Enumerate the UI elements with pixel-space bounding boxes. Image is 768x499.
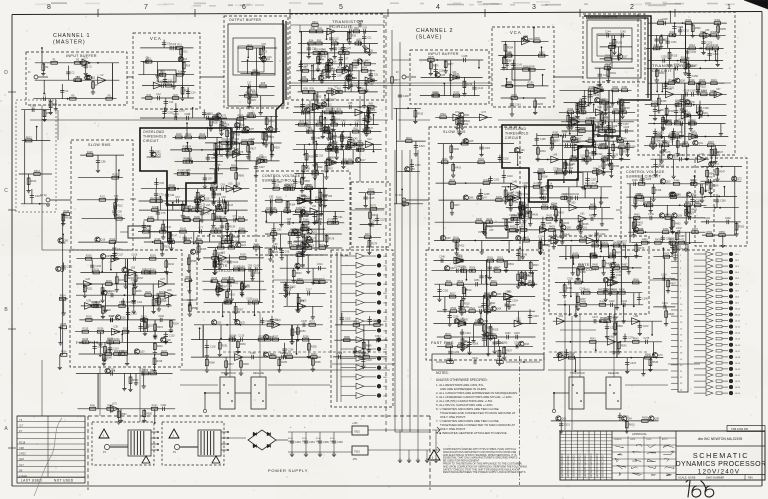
wire trans2a stub [714,51,716,61]
wire inbuf1 stub [85,63,87,71]
svg-text:C305: C305 [337,352,343,355]
wire ladder1 stub [368,107,370,114]
svg-text:C276: C276 [628,337,634,340]
svg-text:R429: R429 [558,212,564,215]
svg-text:C33: C33 [354,85,359,88]
svg-text:REV: REV [748,477,753,480]
ground [609,173,613,178]
svg-text:+15V: +15V [352,422,358,425]
wire ovld1 stub [189,150,191,160]
ground [333,54,337,59]
capacitor C92 [299,215,303,217]
wire cvsum1 stub [314,179,316,188]
junction [121,334,123,336]
svg-text:U27: U27 [160,278,165,281]
resistor R78 [365,125,368,131]
svg-text:C60: C60 [118,211,123,214]
resistor R248 [153,358,156,364]
resistor R244 [114,353,120,356]
capacitor C102 [219,288,221,292]
ground [606,78,610,83]
ground [509,207,513,212]
svg-text:R635: R635 [61,323,67,326]
wire mid2 bus [524,187,526,241]
resistor R183 [269,249,272,255]
junction [679,204,681,206]
resistor R383 [620,149,623,155]
ground [601,171,605,176]
wire frms1 stub [105,295,107,308]
svg-text:U75: U75 [300,300,305,303]
ground [212,199,216,204]
svg-text:TAB 1092 DR: TAB 1092 DR [731,427,748,431]
ground [550,146,554,151]
wire ladder1 stub [322,125,324,135]
wire ovld2 stub [539,172,541,180]
wire trans1 stub [363,31,365,44]
svg-text:C86: C86 [301,206,306,209]
svg-text:R142: R142 [160,227,166,230]
resistor R188 [212,257,218,260]
svg-text:LED: LED [383,293,388,295]
block TRANSISTOR CIRCUIT ch2 [638,12,735,155]
wire mid1 stub [157,206,159,220]
wire inbuf2 stub [478,60,480,68]
wire ladder2 stub [601,112,603,122]
resistor R192 [214,261,217,267]
resistor R252 [291,329,294,335]
ground [585,160,589,165]
capacitor C226 [634,182,636,186]
junction [143,61,145,63]
resistor R387 [601,158,607,161]
junction [215,205,217,207]
capacitor C73 [200,213,204,215]
capacitor C214 [553,205,555,209]
svg-text:R447: R447 [691,180,697,183]
svg-text:R503: R503 [533,264,539,267]
wire ovld1 stub [206,128,208,137]
transistor Q54 [669,192,674,197]
svg-text:K7: K7 [19,429,23,433]
ground [685,56,689,61]
wire cvsum1 stub [324,189,326,204]
wire trans1 bus [300,31,302,92]
resistor R360 [567,111,573,114]
op-amp U29 [85,303,93,310]
wire trans1 rail [298,43,378,45]
svg-text:R327: R327 [675,101,681,104]
transistor Q53 [660,179,665,184]
capacitor C182 [592,120,594,124]
resistor R196 [211,280,217,283]
op-amp U28 [165,292,173,299]
resistor R427 [523,210,526,216]
resistor R203 [226,291,229,297]
sheet border top [12,12,762,15]
resistor R380 [599,146,605,149]
wire trans1 stub [321,71,323,79]
ground [687,214,691,219]
wire [341,329,356,331]
wire ovld1 stub [216,174,218,187]
wire frms1 rail [79,353,176,355]
junction [547,159,549,161]
wire mid2 stub [555,208,557,219]
ground [538,250,542,255]
resistor R419 [506,197,512,200]
wire ladder1 stub [373,115,375,125]
ground [182,70,186,75]
resistor R229 [102,307,105,313]
capacitor C183 [592,120,594,124]
svg-text:C104: C104 [232,282,238,285]
svg-text:C15: C15 [262,43,267,46]
svg-text:R603: R603 [319,278,325,281]
wire ladder2 stub [593,104,595,112]
ground [54,107,58,112]
svg-text:R292: R292 [507,82,513,85]
wire ovld2 rail [533,144,585,146]
ground [367,250,371,255]
svg-text:C: C [4,188,8,194]
resistor R384 [585,150,588,156]
ground [599,200,603,205]
transistor Q4 [261,57,266,62]
ground [205,354,209,359]
junction [326,38,328,40]
resistor R205 [225,301,231,304]
junction [247,59,249,61]
svg-text:R183: R183 [272,251,278,254]
junction [682,22,684,24]
wire ovld2 stub [563,172,565,182]
resistor R257 [272,338,278,341]
wire ovld1 stub [204,174,206,184]
capacitor C27 [339,58,343,60]
svg-text:C179: C179 [580,107,586,110]
wire ladder1 stub [314,163,316,175]
svg-text:C65: C65 [159,182,164,185]
svg-text:R263: R263 [287,353,293,356]
resistor R264 [311,356,317,359]
svg-text:U30: U30 [114,326,119,329]
wire trans2b rail [648,123,725,125]
wire mid2 stub [594,241,596,254]
ground [157,307,161,312]
wire trans2b stub [681,94,683,107]
svg-text:R601: R601 [297,278,303,281]
resistor R278 [453,76,459,79]
svg-text:Q31: Q31 [217,321,222,324]
wire vca2 stub [506,59,508,70]
junction [292,222,294,224]
wire frms1 stub [99,342,101,352]
resistor R208 [85,257,91,260]
junction [101,271,103,273]
wire srms2 rail [438,143,514,145]
wire trans1 stub [358,71,360,85]
svg-text:R117: R117 [211,185,217,188]
op-amp U36 [666,91,674,98]
resistor R37 [355,42,361,45]
ground [559,228,563,233]
resistor R224 [152,299,155,305]
svg-text:Q13: Q13 [310,109,315,112]
wire frms1 stub [84,284,86,293]
svg-text:R130: R130 [217,206,223,209]
ground [333,140,337,145]
svg-text:C49: C49 [336,136,341,139]
svg-text:C223: C223 [557,236,563,239]
svg-text:C95: C95 [285,251,290,254]
junction [705,60,707,62]
capacitor C201 [479,147,483,149]
wire trans1 rail [298,52,377,54]
wire cvsum2 stub [699,184,701,192]
svg-text:R620: R620 [269,120,275,123]
svg-text:C160: C160 [690,89,696,92]
svg-text:C91: C91 [338,216,343,219]
junction [544,240,546,242]
wire [341,357,356,359]
wire rel1 stub [220,325,222,339]
svg-text:R162: R162 [276,197,282,200]
ground [132,298,136,303]
svg-text:C170: C170 [679,119,685,122]
svg-text:R116: R116 [170,185,176,188]
svg-text:R612: R612 [26,136,32,139]
wire cvsum1 bus [318,189,320,248]
svg-text:C101: C101 [232,261,238,264]
capacitor C156 [707,53,711,55]
svg-text:C316: C316 [286,288,292,291]
block CONTROL VOLTAGE SUMMER ch2 [621,167,714,250]
capacitor C16 [262,56,266,58]
ground [180,96,184,101]
wire srms1 stub [113,242,115,256]
svg-text:R475: R475 [592,241,598,244]
LED D7 ch1 [377,310,381,314]
svg-text:C195: C195 [550,140,556,143]
junction [672,34,674,36]
wire outbuf1 rail [241,73,275,75]
resistor R65 [368,106,374,109]
svg-text:R166: R166 [271,207,277,210]
wire ladder2 rail [561,121,634,123]
resistor R413 [533,185,539,188]
ground [133,284,137,289]
svg-text:R426: R426 [590,203,596,206]
capacitor C124 [92,347,96,349]
wire cvsum1 stub [315,234,317,246]
svg-text:R278: R278 [453,73,459,76]
ground [709,160,713,165]
capacitor C33 [349,85,353,87]
resistor R444 [539,242,542,248]
svg-text:!: ! [103,434,104,438]
svg-text:Q30: Q30 [140,351,145,354]
resistor R299 [605,58,611,61]
resistor R389 [602,162,605,168]
op-amp U39 [689,133,697,140]
ground [132,309,136,314]
resistor R334 [688,122,694,125]
switch contact [223,384,225,386]
block VCA ch2 [492,27,554,107]
wire ovld2 rail [537,135,583,137]
resistor R176 [295,233,301,236]
svg-text:R314: R314 [713,44,719,47]
wire mid2 stub [596,230,598,238]
svg-text:R62: R62 [360,88,365,91]
svg-text:R54: R54 [362,67,367,70]
junction [41,47,43,49]
wire frms1 stub [133,284,135,298]
svg-text:C111: C111 [137,301,143,304]
wire mid1 rail [144,241,246,243]
ground [335,155,339,160]
svg-text:C327: C327 [259,166,265,169]
resistor R132 [147,219,153,222]
svg-text:R30: R30 [311,27,316,30]
svg-text:R554: R554 [214,115,220,118]
resistor R377 [617,140,623,143]
svg-text:LED: LED [383,349,388,351]
svg-text:C148: C148 [662,18,668,21]
wire trans2a rail [648,22,727,24]
ground [329,46,333,51]
svg-text:C67: C67 [175,196,180,199]
transistor Q37 [617,54,622,59]
wire ladder1 stub [352,150,354,163]
transistor Q56 [686,192,691,197]
junction [164,341,166,343]
resistor R433 [560,220,563,226]
capacitor C230 [650,216,652,220]
svg-text:R540: R540 [617,325,623,328]
capacitor C67 [177,199,179,203]
resistor R173 [270,233,276,236]
resistor R211 [93,271,99,274]
wire outbuf1 rail [241,61,273,63]
wire ladder1 rail [294,106,377,108]
op-amp U35 [703,32,711,39]
svg-text:R541: R541 [590,338,596,341]
op-amp U50 [569,204,577,211]
LED D11 ch1 [377,347,381,351]
ground [575,114,579,119]
svg-text:R415: R415 [585,183,591,186]
resistor R126 [152,209,158,212]
wire trans2b stub [711,145,713,160]
wire srms2 rail [437,161,511,163]
resistor R236 [97,330,103,333]
capacitor C161 [680,100,684,102]
svg-text:3: 3 [532,4,536,11]
capacitor C151 [655,39,659,41]
junction [118,331,120,333]
sheet border bottom [12,485,762,487]
capacitor C57 [203,178,207,180]
junction [465,182,467,184]
wire [364,367,376,369]
ground [301,263,305,268]
transistor Q15 [327,145,332,150]
resistor R221 [83,285,86,291]
wire ladder2 stub [576,103,578,111]
transistor Q28 [115,315,120,320]
resistor R289 [523,68,529,71]
wire rel1 stub [206,357,208,368]
resistor R2 [75,61,81,64]
wire mid2 stub [505,187,507,200]
transistor Q27 [102,290,107,295]
junction [67,98,69,100]
svg-text:U50: U50 [571,201,576,204]
wire gate1 stub [222,303,224,317]
enclosure inner OUTPUT BUFFER ch2 [592,28,632,62]
junction [191,161,193,163]
svg-text:CR22: CR22 [19,452,26,456]
wire inbuf2 bus [450,60,452,96]
ground [368,222,372,227]
ground [592,133,596,138]
resistor R242 [154,343,157,349]
ground [503,200,507,205]
svg-text:R265: R265 [281,361,287,364]
svg-text:5: 5 [339,4,343,11]
resistor R386 [585,158,591,161]
wire trans2a stub [669,12,671,23]
resistor R58 [302,91,308,94]
resistor R18 [181,88,184,94]
op-amp U1 [82,59,90,66]
svg-text:R574: R574 [303,225,309,228]
wire mid2 stub [520,205,522,219]
svg-text:R567: R567 [312,169,318,172]
wire inbuf1 bus [112,63,114,99]
wire vca2 stub [513,60,515,70]
transistor Q55 [671,192,676,197]
ground [311,367,315,372]
wire ladder1 stub [320,112,322,126]
svg-text:C129: C129 [239,335,245,338]
resistor R319 [688,82,694,85]
op-amp U19 [299,197,307,204]
wire vca1 stub [187,87,189,98]
junction [506,78,508,80]
resistor R219 [132,288,135,294]
ground [633,228,637,233]
svg-text:R93: R93 [309,156,314,159]
resistor R213 [144,271,150,274]
ruler tick [579,9,581,17]
transistor Q41 [693,140,698,145]
resistor R4 [42,64,45,70]
svg-text:C319: C319 [662,302,668,305]
svg-text:C312: C312 [568,167,574,170]
svg-text:C226: C226 [632,179,638,182]
ground [567,199,571,204]
junction [600,197,602,199]
svg-text:R29: R29 [251,99,256,102]
svg-text:NOT USED: NOT USED [54,479,74,483]
resistor R179 [291,247,297,250]
ground [311,77,315,82]
resistor R59 [309,91,315,94]
wire trans1 stub [342,44,344,51]
